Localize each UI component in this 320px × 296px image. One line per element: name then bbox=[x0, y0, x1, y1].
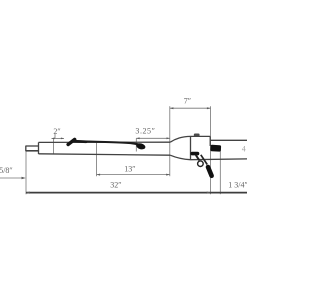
svg-text:13″: 13″ bbox=[124, 165, 135, 174]
svg-text:32″: 32″ bbox=[110, 180, 121, 189]
svg-text:4 3/4: 4 3/4 bbox=[242, 144, 247, 153]
svg-text:7″: 7″ bbox=[184, 97, 191, 106]
svg-text:1 3/4″: 1 3/4″ bbox=[228, 180, 247, 189]
svg-text:5/8″: 5/8″ bbox=[0, 166, 13, 175]
svg-text:2″: 2″ bbox=[53, 127, 60, 136]
svg-text:3.25″: 3.25″ bbox=[135, 126, 155, 135]
